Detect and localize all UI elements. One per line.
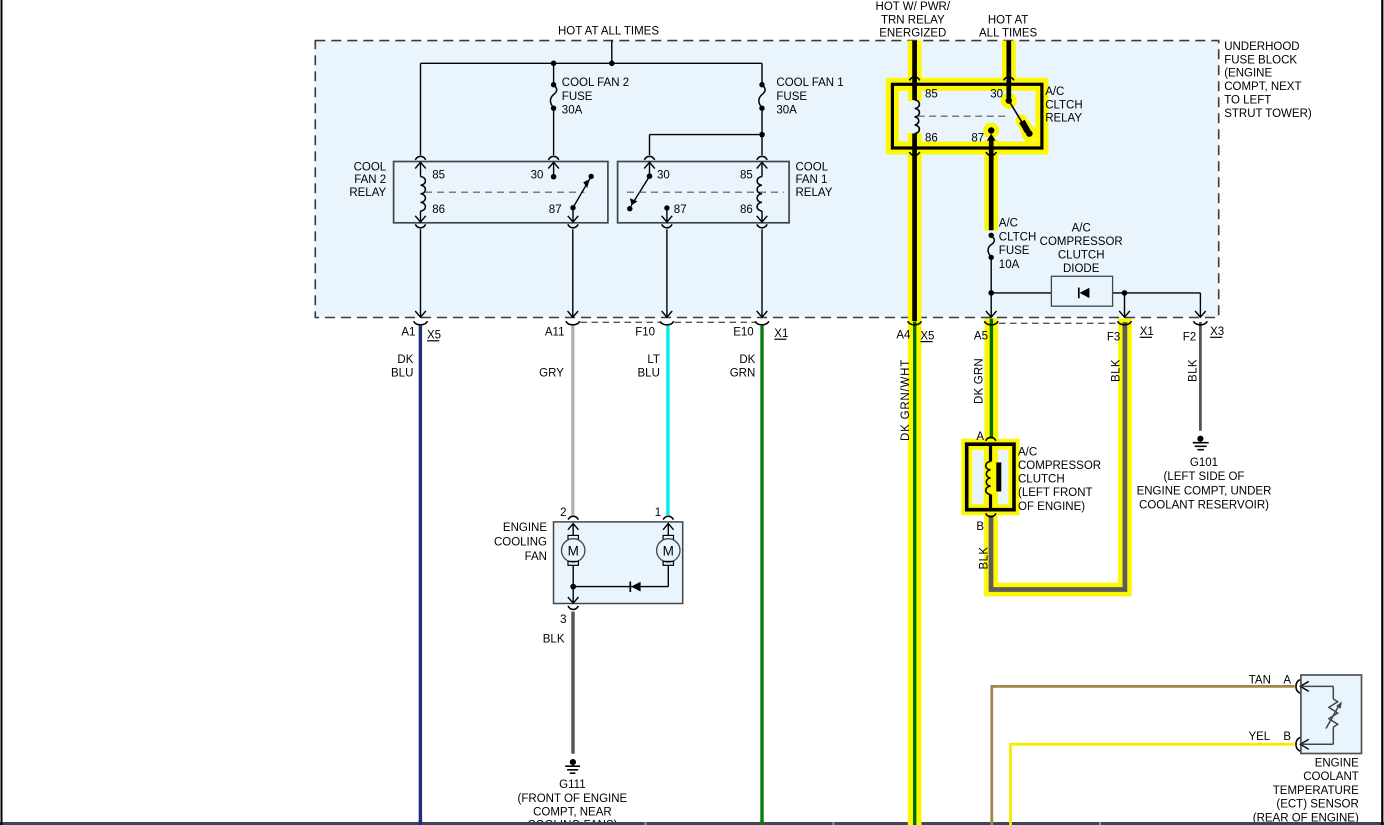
connector cup above clutch pin A <box>986 437 996 440</box>
label COOL FAN 1 RELAY <box>796 162 833 199</box>
wire F2 BLK <box>1199 322 1202 431</box>
highlight yellow band F3/clutch-B loop <box>991 319 1125 590</box>
diode D1 symbol <box>1079 288 1090 299</box>
fan pin 2 arrow <box>568 524 579 536</box>
svg-text:TO LEFT: TO LEFT <box>1224 95 1271 107</box>
svg-text:FAN 2: FAN 2 <box>354 174 386 186</box>
relay K2 COOL FAN 2 RELAY box <box>394 162 608 223</box>
K2 pin 30 terminal (arrow up + dot) <box>548 162 559 179</box>
wire bus (horizontal) <box>421 62 763 64</box>
K3 pin 30 wire black core <box>1006 41 1011 98</box>
svg-text:X5: X5 <box>427 330 441 342</box>
label 30 (K3) <box>990 89 1003 101</box>
ECT thermistor symbol <box>1326 686 1342 744</box>
svg-text:CLUTCH: CLUTCH <box>1018 474 1065 486</box>
svg-text:86: 86 <box>925 132 938 144</box>
K1 pin 87 terminal (dot + arrow down) <box>662 205 673 223</box>
svg-text:HOT AT ALL TIMES: HOT AT ALL TIMES <box>558 25 659 37</box>
label conn X5 (A4) <box>920 330 934 342</box>
relay K1 COOL FAN 1 RELAY box <box>618 162 790 223</box>
svg-text:DK GRN/WHT: DK GRN/WHT <box>900 359 912 441</box>
svg-text:FUSE: FUSE <box>776 91 807 103</box>
svg-text:X3: X3 <box>1210 326 1224 338</box>
wire A4 DK GRN/WHT green core <box>913 322 916 825</box>
K3 coil 85-86 <box>915 100 920 134</box>
svg-text:B: B <box>1283 731 1291 743</box>
svg-text:B: B <box>976 521 984 533</box>
svg-text:F2: F2 <box>1183 332 1196 344</box>
label 87 (K3) <box>971 132 984 144</box>
connector cup A5 <box>984 321 998 325</box>
svg-text:A: A <box>976 431 984 443</box>
connector cup below clutch pin B <box>986 513 996 516</box>
wire YEL over bar <box>1009 821 1012 825</box>
label LT BLU <box>638 354 660 379</box>
connector strip dashes X1 left <box>581 321 756 323</box>
svg-text:COOL FAN 2: COOL FAN 2 <box>562 77 629 89</box>
svg-text:M: M <box>663 543 674 558</box>
connector cup above K3 pin 85 <box>909 77 919 80</box>
connector cup E10 <box>755 321 769 325</box>
connector cup ECT pin A <box>1296 680 1300 694</box>
svg-text:G111: G111 <box>559 779 585 791</box>
svg-text:TRN RELAY: TRN RELAY <box>881 14 945 26</box>
A/C compressor clutch box fill <box>967 444 1014 510</box>
connector cup above K2 pin 85 <box>415 156 425 159</box>
svg-text:30: 30 <box>657 169 670 181</box>
wire K1-86 to E10 <box>757 229 768 317</box>
highlight yellow dot switch contact <box>1022 126 1038 142</box>
highlight yellow switch wedge <box>1022 121 1029 133</box>
connector cup below K2 pin 86 <box>415 224 425 227</box>
wire K1-87 to F10 <box>662 229 673 317</box>
svg-text:RELAY: RELAY <box>796 187 833 199</box>
label COOL FAN 2 FUSE 30A <box>562 77 629 116</box>
motor M2 (right) <box>657 535 680 565</box>
label G101 location <box>1137 457 1272 512</box>
K3 internal dashed line <box>918 115 1006 117</box>
relay K3 black border <box>892 84 1042 148</box>
svg-text:1: 1 <box>655 507 661 519</box>
svg-text:CLTCH: CLTCH <box>1045 99 1082 111</box>
connector cup ECT pin B <box>1296 738 1300 752</box>
wire branch down to F2 <box>1195 293 1206 317</box>
svg-text:DK: DK <box>397 354 413 366</box>
label COOL FAN 2 RELAY <box>349 162 386 199</box>
svg-text:DK: DK <box>739 354 755 366</box>
svg-text:(LEFT SIDE OF: (LEFT SIDE OF <box>1164 471 1245 483</box>
label conn X1 (F3) <box>1140 326 1154 338</box>
label BLK (fan ground wire) <box>543 634 565 646</box>
label pin F2 <box>1183 332 1196 344</box>
svg-text:LT: LT <box>647 354 660 366</box>
label pin B (clutch) <box>976 521 984 533</box>
K2 pin 87 terminal (arrow down) <box>568 208 579 223</box>
svg-text:FUSE: FUSE <box>562 91 593 103</box>
wire YEL to ECT pin B <box>1011 744 1295 825</box>
label TAN <box>1249 675 1271 687</box>
wire A5 DK GRN core <box>990 319 993 446</box>
label pin A11 <box>545 327 565 339</box>
svg-text:(ENGINE: (ENGINE <box>1224 68 1272 80</box>
svg-text:A/C: A/C <box>1045 86 1064 98</box>
K2 internal dashed line <box>425 191 585 193</box>
wire fuse1 elbow to relay K1 pin 30 <box>650 135 763 155</box>
K3 pin 85 wire black core (top) <box>912 41 917 100</box>
svg-text:CLTCH: CLTCH <box>999 231 1036 243</box>
svg-text:BLK: BLK <box>543 634 565 646</box>
fuse COOL FAN 2 FUSE 30A <box>550 63 556 155</box>
connector cup below K2 pin 87 <box>568 224 578 227</box>
K3 pin 87 wire black core to fuse <box>989 148 994 230</box>
net HOT AT ALL TIMES (left) <box>558 25 659 37</box>
svg-text:30: 30 <box>990 89 1003 101</box>
label A/C CLTCH FUSE 10A <box>999 218 1036 271</box>
svg-text:10A: 10A <box>999 259 1020 271</box>
svg-text:BLK: BLK <box>1111 359 1123 382</box>
svg-text:TAN: TAN <box>1249 675 1271 687</box>
label pin A (clutch) <box>976 431 984 443</box>
highlight yellow band A5 wire <box>985 319 999 448</box>
K3 pin 87 dot and arrow up <box>987 127 996 148</box>
diode D1 A/C COMPRESSOR CLUTCH DIODE box <box>1051 276 1112 306</box>
bottom bar <box>0 822 1384 825</box>
svg-text:F10: F10 <box>635 327 655 339</box>
svg-text:86: 86 <box>432 204 445 216</box>
label 85 (K3) <box>925 89 938 101</box>
ECT pin B arrow <box>1300 739 1333 749</box>
engine cooling fan box <box>554 522 683 604</box>
svg-text:A/C: A/C <box>1072 223 1091 235</box>
svg-text:FAN 1: FAN 1 <box>796 174 828 186</box>
label UNDERHOOD FUSE BLOCK location <box>1224 41 1312 120</box>
fan pin 3 arrow <box>568 587 579 604</box>
label 87 (K1) <box>674 204 687 216</box>
label A/C COMPRESSOR CLUTCH DIODE <box>1040 223 1123 276</box>
label pin A1 <box>401 327 415 339</box>
motor M1 (left) <box>562 535 585 565</box>
label BLK (vertical, F2) <box>1188 359 1200 382</box>
connector cup below K1 pin 86 <box>757 224 767 227</box>
K1 switch blade with arrow and contact dot <box>627 176 649 211</box>
svg-text:COMPT, NEXT: COMPT, NEXT <box>1224 81 1301 93</box>
label 85 (K2) <box>432 169 445 181</box>
ECT pin A arrow <box>1300 681 1333 691</box>
label DK BLU <box>391 354 414 379</box>
connector cup below K3 pin 87 <box>986 152 996 155</box>
ground symbol G111 <box>565 759 580 773</box>
svg-text:ALL TIMES: ALL TIMES <box>979 28 1037 40</box>
wire A11 GRY <box>571 326 574 515</box>
highlight yellow outline clutch box <box>967 444 1014 510</box>
svg-text:RELAY: RELAY <box>1045 113 1082 125</box>
label pin B (ECT) <box>1283 731 1291 743</box>
svg-text:E10: E10 <box>733 327 753 339</box>
svg-text:COOL: COOL <box>354 162 387 174</box>
label 30 (K2) <box>531 169 544 181</box>
label ENGINE COOLANT TEMPERATURE (ECT) SENSOR location <box>1253 757 1359 824</box>
highlight yellow band pin87 wire to fuse <box>984 140 998 231</box>
connector cup A11 <box>566 321 580 325</box>
label A/C COMPRESSOR CLUTCH location <box>1018 446 1101 512</box>
fan internal wiring <box>570 565 668 589</box>
label pin F3 <box>1107 332 1120 344</box>
connector cup above K1 pin 30 <box>644 156 654 159</box>
svg-text:TEMPERATURE: TEMPERATURE <box>1273 785 1359 797</box>
junction bus/fuse2 <box>551 61 557 67</box>
connector cup below K3 pin 86 <box>909 152 919 155</box>
svg-text:G101: G101 <box>1190 457 1218 469</box>
svg-text:F3: F3 <box>1107 332 1120 344</box>
label conn X5 (A1) <box>427 330 441 342</box>
svg-text:30A: 30A <box>562 105 583 117</box>
K3 switch blade <box>1009 101 1033 137</box>
label 86 (K2) <box>432 204 445 216</box>
fuse A/C CLTCH FUSE 10A <box>988 233 994 293</box>
K2 pin 85 terminal (arrow up + coil to pin 86) <box>415 162 426 223</box>
svg-text:COOL FAN 1: COOL FAN 1 <box>776 77 843 89</box>
svg-text:HOT AT: HOT AT <box>988 14 1028 26</box>
label fan pin 2 <box>560 507 566 519</box>
label conn X3 (F2) <box>1210 326 1224 338</box>
svg-text:CLUTCH: CLUTCH <box>1058 250 1105 262</box>
highlight yellow band pin30 feed wire (HOT AT ALL TIMES) <box>1002 41 1016 89</box>
wire DK GRN/WHT over bar <box>908 821 922 825</box>
K3 pin 86 wire black core down to A4 <box>912 134 917 322</box>
label 86 (K3) <box>925 132 938 144</box>
clutch box black border <box>967 444 1014 510</box>
svg-text:A: A <box>1283 675 1291 687</box>
svg-text:A5: A5 <box>974 330 988 342</box>
wire F10 LT BLU <box>666 326 669 515</box>
clutch coil and plate <box>986 446 1002 508</box>
svg-text:COOLING: COOLING <box>494 537 547 549</box>
fan internal diode <box>630 582 640 593</box>
label 86 (K1) <box>740 204 753 216</box>
fuse COOL FAN 1 FUSE 30A <box>759 63 765 155</box>
wire DK GRN over bar <box>760 821 763 825</box>
svg-text:(LEFT FRONT: (LEFT FRONT <box>1018 487 1093 499</box>
wire TAN over bar <box>990 821 993 825</box>
K1 pin 30 terminal (arrow up + dot) <box>644 162 655 179</box>
wire bus left end down to relay K2 pin 85 <box>420 63 422 155</box>
svg-text:A4: A4 <box>896 330 911 342</box>
underhood fuse block (dashed outline, light blue fill) <box>315 41 1218 318</box>
label BLK (vertical, F3) <box>1111 359 1123 382</box>
label pin E10 <box>733 327 753 339</box>
label fan pin 3 <box>560 614 566 626</box>
svg-text:COOLANT: COOLANT <box>1303 771 1359 783</box>
svg-text:3: 3 <box>560 614 566 626</box>
svg-text:30: 30 <box>531 169 544 181</box>
svg-text:COMPT, NEAR: COMPT, NEAR <box>533 807 612 819</box>
svg-text:ENGINE: ENGINE <box>503 522 547 534</box>
svg-text:COMPRESSOR: COMPRESSOR <box>1040 236 1123 248</box>
connector cup below fan pin 3 <box>568 606 578 609</box>
label DK GRN (vertical, A5) <box>974 358 986 404</box>
svg-text:BLU: BLU <box>391 367 413 379</box>
relay K3 A/C CLTCH RELAY box fill <box>892 84 1042 148</box>
svg-text:COOLANT RESERVOIR): COOLANT RESERVOIR) <box>1139 500 1269 512</box>
ECT sensor box <box>1301 675 1362 754</box>
svg-text:DK GRN: DK GRN <box>974 358 986 404</box>
wire feed from HOT AT ALL TIMES down to bus <box>611 41 613 64</box>
svg-text:ENERGIZED: ENERGIZED <box>879 28 946 40</box>
connector cup A1 <box>414 321 428 325</box>
svg-text:ENGINE: ENGINE <box>1315 757 1359 769</box>
label ENGINE COOLING FAN <box>494 522 547 563</box>
wire branch down to F3 <box>1119 293 1130 317</box>
wire fan pin 3 BLK <box>571 612 574 754</box>
svg-text:BLU: BLU <box>638 367 660 379</box>
svg-text:87: 87 <box>674 204 687 216</box>
junction diode/F3 <box>1122 290 1128 296</box>
svg-text:ENGINE COMPT, UNDER: ENGINE COMPT, UNDER <box>1137 485 1272 497</box>
svg-text:(FRONT OF ENGINE: (FRONT OF ENGINE <box>518 793 628 805</box>
svg-text:COMPRESSOR: COMPRESSOR <box>1018 460 1101 472</box>
svg-text:X1: X1 <box>1140 326 1154 338</box>
svg-text:2: 2 <box>560 507 566 519</box>
wire A1 DK BLU <box>419 326 422 825</box>
wire diode branch horizontal <box>991 292 1200 294</box>
label DK GRN/WHT (vertical) <box>900 359 912 441</box>
label YEL <box>1248 731 1270 743</box>
svg-text:YEL: YEL <box>1248 731 1270 743</box>
label 87 (K2) <box>549 204 562 216</box>
page left border <box>1 0 3 825</box>
svg-text:RELAY: RELAY <box>349 187 386 199</box>
label G111 location <box>518 779 628 825</box>
label pin A (ECT) <box>1283 675 1291 687</box>
highlight yellow band pin85 feed wire (HOT W/ PWR) <box>908 41 922 101</box>
wire E10 DK GRN <box>760 326 763 825</box>
svg-text:85: 85 <box>740 169 753 181</box>
highlight yellow band pin86 wire down to A4 and DK GRN/WHT run <box>908 133 922 825</box>
label BLK (vertical, clutch B) <box>978 547 990 570</box>
label GRY <box>539 367 564 379</box>
svg-text:FAN: FAN <box>525 551 547 563</box>
svg-text:GRY: GRY <box>539 367 564 379</box>
svg-text:A/C: A/C <box>1018 446 1037 458</box>
highlight yellow dot pin87 <box>983 123 999 139</box>
connector strip dashes X1 right <box>999 322 1117 324</box>
label A/C CLTCH RELAY <box>1045 86 1082 125</box>
connector cup above K1 pin 85 <box>757 156 767 159</box>
svg-text:86: 86 <box>740 204 753 216</box>
svg-text:X1: X1 <box>774 328 788 340</box>
svg-text:X5: X5 <box>920 330 934 342</box>
junction fuse1/elbow <box>759 132 765 138</box>
wire K2-86 to A1 <box>415 229 426 317</box>
wire fuse to A5 <box>986 293 997 317</box>
junction bus/feed <box>609 61 615 67</box>
label pin F10 <box>635 327 655 339</box>
label fan pin 1 <box>655 507 661 519</box>
svg-text:A1: A1 <box>401 327 415 339</box>
K3 pin 30 dot <box>1006 97 1012 103</box>
svg-text:DIODE: DIODE <box>1063 263 1100 275</box>
connector cup F3 <box>1118 321 1132 325</box>
K1 pin 85 terminal (arrow up + coil to pin 86) <box>757 162 768 223</box>
svg-text:A11: A11 <box>545 327 565 339</box>
svg-text:85: 85 <box>432 169 445 181</box>
connector cup A4 <box>908 321 922 325</box>
net HOT AT ALL TIMES (right) <box>979 14 1037 39</box>
label conn X1 (left) <box>774 328 788 340</box>
svg-text:30A: 30A <box>776 105 797 117</box>
connector cup above K3 pin 30 <box>1004 77 1014 80</box>
label COOL FAN 1 FUSE 30A <box>776 77 843 116</box>
page right border <box>1381 0 1383 825</box>
svg-text:UNDERHOOD: UNDERHOOD <box>1224 41 1299 53</box>
svg-text:STRUT TOWER): STRUT TOWER) <box>1224 108 1312 120</box>
wire G101 gap + ground symbol G101 <box>1193 436 1209 450</box>
svg-text:FUSE: FUSE <box>999 245 1030 257</box>
svg-text:A/C: A/C <box>999 218 1018 230</box>
svg-text:COOL: COOL <box>796 162 829 174</box>
wire DK BLU over bar <box>419 821 422 825</box>
label 30 (K1) <box>657 169 670 181</box>
junction fuse output <box>988 290 994 296</box>
svg-text:85: 85 <box>925 89 938 101</box>
label pin A4 <box>896 330 911 342</box>
svg-text:GRN: GRN <box>730 367 756 379</box>
net HOT W/ PWR/ TRN RELAY ENERGIZED <box>876 1 951 40</box>
label 85 (K1) <box>740 169 753 181</box>
connector cup above fan pin 2 <box>568 516 578 519</box>
svg-text:BLK: BLK <box>978 547 990 570</box>
K2 switch blade with arrow and contact dot <box>570 174 594 211</box>
svg-text:M: M <box>568 543 579 558</box>
wire F3 + clutch B BLK loop <box>991 322 1125 590</box>
fan pin 1 arrow <box>663 524 674 536</box>
wire TAN to ECT pin A <box>992 686 1295 825</box>
connector cup above K2 pin 30 <box>548 156 558 159</box>
highlight yellow dot pin30 <box>1001 93 1017 109</box>
label pin A5 <box>974 330 988 342</box>
label DK GRN <box>730 354 756 379</box>
highlight yellow band through clutch <box>984 444 998 510</box>
svg-text:(ECT) SENSOR: (ECT) SENSOR <box>1276 799 1358 811</box>
connector cup F10 <box>660 321 674 325</box>
svg-text:87: 87 <box>971 132 984 144</box>
connector cup below K1 pin 87 <box>662 224 672 227</box>
wire K2-87 to A11 <box>568 229 579 317</box>
highlight yellow outline of K3 box <box>892 84 1042 148</box>
svg-text:HOT W/ PWR/: HOT W/ PWR/ <box>876 1 951 13</box>
svg-text:87: 87 <box>549 204 562 216</box>
svg-text:BLK: BLK <box>1188 359 1200 382</box>
connector cup F2 <box>1194 321 1208 325</box>
svg-text:FUSE BLOCK: FUSE BLOCK <box>1224 54 1297 66</box>
K1 internal dashed line <box>627 191 784 193</box>
connector cup above fan pin 1 <box>663 516 673 519</box>
svg-text:OF ENGINE): OF ENGINE) <box>1018 501 1085 513</box>
